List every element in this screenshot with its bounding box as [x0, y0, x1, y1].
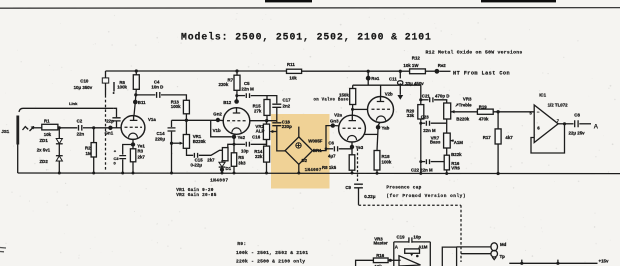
- node Ye1: [131, 139, 146, 148]
- text VR1 gain note: [176, 188, 214, 193]
- capacitor C17: [267, 96, 291, 121]
- svg-text:10p: 10p: [413, 235, 421, 240]
- svg-text:R16: R16: [376, 253, 385, 258]
- svg-text:Re2: Re2: [438, 63, 447, 68]
- svg-text:C10: C10: [80, 79, 89, 84]
- svg-text:220k: 220k: [219, 82, 229, 87]
- svg-text:Master: Master: [374, 241, 388, 246]
- triode V1a: [121, 116, 156, 140]
- wire V1b grid: [172, 119, 224, 121]
- svg-text:−: −: [537, 109, 540, 114]
- wire BR1 to Gn3 node: [313, 126, 333, 151]
- svg-text:22p: 22p: [106, 118, 114, 123]
- svg-text:B220k: B220k: [193, 139, 206, 144]
- svg-text:22n M: 22n M: [423, 128, 436, 133]
- svg-text:C6: C6: [328, 141, 334, 146]
- svg-text:100k - 2501, 2502 & 2101: 100k - 2501, 2502 & 2101: [236, 250, 308, 256]
- svg-text:100k: 100k: [382, 159, 392, 164]
- resistor R15: [253, 100, 270, 121]
- resistor R19: [477, 104, 534, 121]
- yellow highlight box: [271, 114, 330, 189]
- svg-text:R9:: R9:: [237, 241, 246, 247]
- resistor R7: [219, 71, 241, 102]
- svg-text:IC1: IC1: [539, 92, 546, 97]
- dashed presence link vertical right: [460, 205, 462, 262]
- svg-text:2k7: 2k7: [138, 154, 146, 159]
- junction C4 tap: [134, 93, 137, 96]
- zener ZD1: [40, 128, 63, 144]
- resistor R17: [483, 112, 514, 175]
- capacitor C5: [237, 81, 267, 100]
- wire op-amp output: [558, 122, 573, 125]
- triode V2a: [334, 113, 365, 142]
- svg-text:22n M: 22n M: [241, 86, 254, 91]
- capacitor C11: [389, 71, 424, 100]
- ground junction dots left: [58, 172, 173, 175]
- capacitor C22: [411, 159, 444, 172]
- junction zener tap: [58, 126, 61, 129]
- junction R15 VR2: [265, 119, 268, 122]
- svg-text:R3: R3: [138, 149, 144, 154]
- svg-text:(for Promod Version only): (for Promod Version only): [386, 194, 466, 199]
- capacitor 22p bright: [106, 108, 120, 128]
- wire Ye2 node split: [228, 137, 236, 153]
- svg-text:220k - 2500 & 2100 only: 220k - 2500 & 2100 only: [236, 259, 305, 265]
- resistor R14: [254, 140, 269, 174]
- svg-text:on Valve Base: on Valve Base: [314, 98, 349, 103]
- svg-text:0-22μ: 0-22μ: [191, 162, 203, 167]
- svg-text:100k: 100k: [117, 84, 127, 89]
- wire heater link: [364, 133, 378, 135]
- svg-text:Gn3: Gn3: [330, 119, 339, 124]
- text presence cap note: [386, 186, 466, 199]
- capacitor C2: [77, 119, 94, 137]
- svg-text:1M: 1M: [86, 151, 92, 156]
- svg-text:4μ7: 4μ7: [328, 154, 336, 159]
- note R12 metal oxide: [426, 50, 523, 56]
- svg-text:B11: B11: [138, 100, 146, 105]
- svg-text:1N4007: 1N4007: [210, 177, 228, 183]
- svg-text:C8: C8: [574, 113, 580, 118]
- capacitor C18: [272, 119, 292, 151]
- junction rail C11: [399, 70, 402, 73]
- junction R13 grid: [185, 119, 188, 122]
- svg-text:10k: 10k: [289, 75, 297, 80]
- potentiometer VR7 bass: [430, 133, 463, 148]
- svg-text:V1a: V1a: [148, 117, 156, 122]
- wire Link: [19, 101, 113, 112]
- capacitor C23: [419, 114, 446, 133]
- node B12: [223, 99, 239, 105]
- svg-text:Ye3: Ye3: [356, 145, 364, 150]
- wire treble to bass: [446, 119, 448, 133]
- svg-text:2x 5v1: 2x 5v1: [37, 148, 51, 153]
- node A output: [594, 123, 599, 130]
- resistor R16 master: [356, 253, 401, 266]
- svg-text:0.22μ: 0.22μ: [364, 194, 376, 199]
- svg-text:R19: R19: [479, 104, 488, 109]
- svg-text:C17: C17: [283, 98, 292, 103]
- node Yab: [376, 122, 390, 130]
- input jack JS1: [1, 116, 41, 174]
- svg-text:Models: 2500, 2501, 2502, 2100: Models: 2500, 2501, 2502, 2100 & 2101: [181, 32, 432, 43]
- svg-text:10μ 350v: 10μ 350v: [74, 85, 93, 90]
- svg-text:220p: 220p: [282, 124, 292, 129]
- svg-text:C22 22n M: C22 22n M: [411, 168, 433, 173]
- node Re2: [435, 63, 451, 74]
- wire V2a anode to V2b grid: [351, 108, 368, 111]
- wire R1 to C2: [58, 127, 77, 129]
- svg-text:R1: R1: [44, 118, 50, 123]
- svg-text:220μ: 220μ: [155, 136, 165, 141]
- svg-text:V2a: V2a: [334, 113, 342, 118]
- page mark bottom left: [0, 248, 6, 252]
- page edge mark top 2: [481, 0, 556, 2]
- capacitor C14: [155, 120, 176, 173]
- svg-text:C5: C5: [244, 81, 250, 86]
- svg-text:B12: B12: [223, 100, 232, 105]
- svg-text:A1M: A1M: [418, 245, 428, 250]
- svg-text:C14: C14: [157, 131, 166, 136]
- svg-text:C2: C2: [77, 119, 83, 124]
- wire op-amp feedback: [531, 124, 565, 153]
- ground rail: [18, 172, 620, 175]
- svg-text:150k: 150k: [339, 93, 349, 98]
- svg-text:Gn2: Gn2: [213, 112, 222, 117]
- svg-text:Re1: Re1: [371, 76, 380, 81]
- svg-text:Presence cap: Presence cap: [386, 186, 421, 191]
- svg-text:27k: 27k: [254, 108, 262, 113]
- node B11: [133, 100, 146, 116]
- op-amp IC1: [530, 92, 569, 142]
- svg-text:C16: C16: [252, 134, 261, 139]
- potentiometer VR2: [255, 121, 276, 140]
- dashed presence link horizontal: [359, 204, 462, 206]
- capacitor C3: [114, 145, 132, 174]
- label 1N4007 for BR1: [305, 168, 322, 173]
- potentiometer VR1: [170, 120, 206, 148]
- capacitor C10: [74, 71, 115, 170]
- svg-text:2n2: 2n2: [283, 104, 291, 109]
- triode V1b: [213, 108, 250, 135]
- capacitor C16: [234, 134, 267, 153]
- capacitor C15: [187, 148, 223, 167]
- svg-text:470k: 470k: [479, 117, 489, 122]
- diode D1: [219, 161, 232, 173]
- svg-text:10k 1W: 10k 1W: [403, 63, 419, 68]
- capacitor C21: [421, 93, 450, 103]
- resistor R18: [374, 127, 392, 173]
- op-amp IC1b master: [399, 256, 421, 266]
- resistor R11: [287, 62, 302, 80]
- junction block bottom right: [442, 247, 456, 266]
- svg-text:+15v: +15v: [599, 259, 609, 264]
- svg-text:D2: D2: [302, 158, 308, 163]
- junction rail Re1: [367, 70, 370, 73]
- HT supply rail: [106, 70, 437, 72]
- wire to Gn1: [94, 127, 111, 129]
- svg-text:R12 Metal Oxide on 50W version: R12 Metal Oxide on 50W versions: [426, 50, 523, 56]
- svg-text:22k: 22k: [255, 154, 263, 159]
- node Gn1: [105, 126, 122, 136]
- ground junction dots middle: [221, 172, 379, 175]
- svg-text:33k: 33k: [407, 113, 415, 118]
- capacitor C8: [569, 113, 592, 136]
- svg-text:4k7: 4k7: [505, 135, 513, 140]
- wire anode top coupling: [250, 120, 277, 122]
- svg-text:Tp: Tp: [500, 254, 506, 259]
- svg-text:HT From Last Con: HT From Last Con: [453, 70, 510, 76]
- resistor R5: [231, 153, 246, 173]
- svg-text:Md: Md: [500, 242, 507, 247]
- resistor R4 2k7: [207, 148, 228, 163]
- wire grid stub to Ye2: [211, 120, 232, 137]
- label HT From Last Con: [453, 70, 510, 76]
- junction C5 tap: [235, 94, 238, 97]
- svg-text:V2b: V2b: [385, 92, 393, 97]
- svg-text:↗Treble: ↗Treble: [455, 102, 472, 107]
- svg-text:Bass: Bass: [430, 140, 441, 145]
- svg-text:C11: C11: [389, 77, 397, 82]
- page edge mark top 1: [265, 0, 312, 2]
- svg-text:2k7: 2k7: [207, 158, 215, 163]
- resistor R12: [403, 55, 425, 73]
- wire to Md connector: [457, 246, 491, 248]
- svg-text:10k: 10k: [44, 132, 52, 137]
- svg-text:B220k: B220k: [456, 117, 469, 122]
- capacitor C9 presence: [345, 184, 375, 205]
- svg-text:C23: C23: [421, 114, 430, 119]
- ground dot tone stack: [419, 172, 422, 175]
- svg-text:R8 1k5: R8 1k5: [322, 165, 337, 170]
- wire V2b anode to tone stack: [381, 85, 423, 104]
- horizontal page rule: [0, 7, 620, 10]
- node Gn3: [330, 119, 339, 128]
- junction R2 tap: [92, 126, 95, 129]
- junction rail R6: [135, 69, 138, 72]
- svg-text:1/2 TL072: 1/2 TL072: [548, 102, 569, 107]
- svg-text:10n D: 10n D: [151, 85, 163, 90]
- svg-text:1N4007: 1N4007: [305, 168, 322, 173]
- capacitor C19: [397, 234, 422, 243]
- bridge rectifier BR1: [285, 127, 323, 173]
- triode V2b: [368, 92, 394, 123]
- node Ye2: [232, 134, 246, 140]
- svg-text:VR6: VR6: [451, 165, 460, 170]
- svg-text:C21: C21: [422, 93, 431, 98]
- dashed presence link vertical: [357, 149, 359, 183]
- resistor R9 150k anode: [314, 85, 356, 115]
- node Ye3: [350, 142, 364, 150]
- svg-text:A1M: A1M: [454, 140, 464, 145]
- svg-text:Ye2: Ye2: [238, 135, 246, 140]
- svg-text:C19: C19: [397, 234, 406, 239]
- svg-text:470p D: 470p D: [435, 93, 449, 98]
- junction R17 tap: [496, 110, 499, 113]
- resistor R13: [171, 99, 190, 120]
- svg-text:ALP: ALP: [256, 129, 265, 134]
- potentiometer VR3 treble: [444, 97, 478, 122]
- zener ZD2: [37, 144, 63, 173]
- wire to Tp connector: [461, 253, 491, 255]
- svg-text:VR3: VR3: [463, 97, 472, 102]
- svg-text:C9: C9: [345, 185, 351, 190]
- svg-text:Yab: Yab: [382, 125, 390, 130]
- svg-text:22μ 25v: 22μ 25v: [569, 130, 586, 135]
- resistor R3: [130, 147, 145, 173]
- resistor R2: [85, 128, 96, 173]
- junction rail R7: [235, 69, 238, 72]
- svg-text:R11: R11: [287, 62, 295, 67]
- title: Models 2500 2501 2502 2100 2101: [181, 32, 432, 43]
- capacitor C4: [136, 80, 187, 101]
- svg-text:W005F: W005F: [308, 138, 322, 143]
- svg-text:Link: Link: [69, 101, 78, 106]
- svg-text:R17: R17: [483, 135, 492, 140]
- svg-text:100k: 100k: [171, 104, 181, 109]
- text R9 model note: [236, 241, 308, 265]
- svg-text:R12: R12: [412, 55, 421, 60]
- resistor R6: [117, 71, 139, 102]
- resistor R8: [322, 147, 355, 173]
- +15v supply rail: [509, 259, 609, 265]
- potentiometer VR3 master: [374, 236, 431, 266]
- svg-text:JS1: JS1: [1, 129, 9, 134]
- svg-text:3k3: 3k3: [238, 160, 246, 165]
- resistor R20: [406, 105, 424, 174]
- node Gn2: [213, 112, 222, 123]
- connector Tp: [491, 250, 505, 259]
- svg-text:22n: 22n: [77, 131, 85, 136]
- svg-text:Gn1: Gn1: [105, 131, 114, 136]
- resistor R1: [42, 118, 58, 136]
- text VR2 gain note: [176, 193, 217, 198]
- svg-text:B22k: B22k: [451, 152, 462, 157]
- svg-text:R7: R7: [228, 78, 234, 83]
- svg-text:VR2 Gain 20-85: VR2 Gain 20-85: [176, 193, 217, 198]
- node Re1: [353, 71, 381, 96]
- capacitor C6: [326, 141, 352, 159]
- svg-text:A: A: [594, 123, 599, 130]
- label 1N4007 for D1: [210, 177, 228, 183]
- svg-text:ZD1: ZD1: [40, 138, 49, 143]
- potentiometer VR6 middle: [444, 148, 462, 175]
- svg-text:R2: R2: [85, 145, 91, 150]
- svg-text:ZD2: ZD2: [40, 159, 49, 164]
- svg-text:V1b: V1b: [213, 128, 221, 133]
- svg-text:10p: 10p: [241, 148, 249, 153]
- connector Md: [491, 242, 507, 251]
